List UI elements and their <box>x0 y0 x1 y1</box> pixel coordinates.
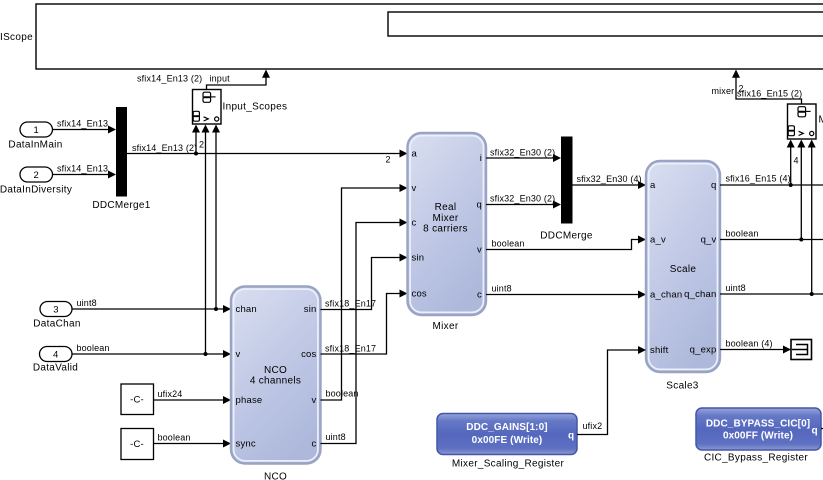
wire Mixer v to Scale a_v <box>486 240 639 250</box>
wire CIC q stub <box>821 428 823 430</box>
wire input wire to scope <box>207 78 267 90</box>
svg-text:DDCMerge1: DDCMerge1 <box>92 200 150 211</box>
inport 1 DataInMain <box>20 122 53 137</box>
svg-text:input: input <box>210 74 231 84</box>
wire DDCMerge1 to Mixer a <box>127 153 400 155</box>
svg-text:ufix24: ufix24 <box>158 389 183 399</box>
svg-text:NCO: NCO <box>264 365 287 376</box>
wire NCO cos to Mixer cos <box>321 294 401 355</box>
constant C1 <box>121 384 154 415</box>
svg-text:sync: sync <box>236 439 256 450</box>
svg-text:v: v <box>312 395 317 406</box>
svg-text:-C-: -C- <box>130 439 144 450</box>
svg-text:DDC_GAINS[1:0]: DDC_GAINS[1:0] <box>466 422 547 433</box>
svg-text:sfix32_En30 (2): sfix32_En30 (2) <box>490 194 555 204</box>
constant C2 <box>121 429 154 460</box>
svg-text:boolean: boolean <box>326 389 359 399</box>
svg-text:q: q <box>711 180 716 191</box>
mux DDCMerge1 <box>116 107 127 197</box>
svg-text:DataChan: DataChan <box>33 319 80 330</box>
svg-text:M: M <box>819 115 823 126</box>
svg-text:4: 4 <box>53 350 58 361</box>
terminator block <box>791 340 812 360</box>
svg-text:sin: sin <box>304 304 317 315</box>
wire port3 to NCO chan <box>72 308 224 310</box>
junction data node <box>194 152 198 156</box>
svg-text:0x00FF (Write): 0x00FF (Write) <box>723 431 793 442</box>
register CIC_Bypass_Register <box>696 408 821 450</box>
svg-text:IScope: IScope <box>0 32 33 43</box>
svg-text:i: i <box>480 153 482 164</box>
scope window frame <box>36 4 823 69</box>
svg-text:a_v: a_v <box>650 235 666 246</box>
svg-text:sfix16_En15 (2): sfix16_En15 (2) <box>737 89 802 99</box>
wire q_v riser to Mixer_Scopes <box>800 147 802 240</box>
svg-text:NCO: NCO <box>264 472 287 480</box>
svg-text:sfix16_En15 (4): sfix16_En15 (4) <box>726 174 791 184</box>
svg-text:q_exp: q_exp <box>690 345 717 356</box>
svg-text:CIC_Bypass_Register: CIC_Bypass_Register <box>704 453 808 464</box>
svg-text:boolean: boolean <box>158 433 191 443</box>
junction q_v node <box>799 238 803 242</box>
wire Mixer q to DDCMerge <box>486 204 554 206</box>
block Scale3 <box>646 161 720 372</box>
svg-text:boolean (4): boolean (4) <box>726 339 773 349</box>
svg-text:v: v <box>477 245 482 256</box>
junction chan node <box>214 307 218 311</box>
svg-text:uint8: uint8 <box>326 432 346 442</box>
svg-text:sfix32_En30 (4): sfix32_En30 (4) <box>577 174 642 184</box>
wire Mixer c to Scale a_chan <box>486 294 639 296</box>
svg-text:mixer: mixer <box>712 86 735 96</box>
svg-text:Scale: Scale <box>670 264 697 275</box>
svg-text:sfix14_En13 (2): sfix14_En13 (2) <box>132 143 197 153</box>
svg-text:a: a <box>650 180 656 191</box>
svg-text:q: q <box>568 431 574 442</box>
wire register to Scale shift <box>577 350 639 435</box>
svg-text:c: c <box>477 290 482 301</box>
svg-text:DataInMain: DataInMain <box>8 140 62 151</box>
wire q_chan riser to Mixer_Scopes <box>811 147 813 294</box>
svg-text:DDC_BYPASS_CIC[0]: DDC_BYPASS_CIC[0] <box>706 419 810 430</box>
wire Scale q_v to edge <box>720 239 823 241</box>
junction valid node <box>204 352 208 356</box>
wire Scale q to edge <box>720 184 823 186</box>
svg-text:chan: chan <box>236 304 257 315</box>
svg-text:uint8: uint8 <box>726 283 746 293</box>
wire mixer wire to scope <box>736 78 802 105</box>
wire chan riser to Input_Scopes <box>215 132 217 309</box>
subsystem Input_Scopes <box>193 90 288 125</box>
mux DDCMerge <box>561 137 573 224</box>
subsystem Mixer_Scopes <box>788 104 823 139</box>
svg-text:3: 3 <box>53 305 58 316</box>
svg-text:Scale3: Scale3 <box>666 381 699 392</box>
svg-text:Real: Real <box>435 202 457 213</box>
wire port2 to DDCMerge1 <box>53 174 109 176</box>
svg-text:2: 2 <box>199 140 204 150</box>
svg-text:uint8: uint8 <box>492 284 512 294</box>
svg-text:c: c <box>412 218 417 229</box>
block Mixer <box>408 133 487 315</box>
svg-text:boolean: boolean <box>492 239 525 249</box>
svg-text:q: q <box>812 426 818 437</box>
wire C2 to NCO sync <box>154 443 224 445</box>
register Mixer_Scaling_Register <box>437 414 577 455</box>
wire port1 to DDCMerge1 <box>53 129 109 131</box>
svg-text:Input_Scopes: Input_Scopes <box>223 102 288 113</box>
svg-text:DDCMerge: DDCMerge <box>540 231 593 242</box>
wire NCO v to Mixer v <box>321 188 401 400</box>
junction q_chan node <box>810 292 814 296</box>
svg-text:a_chan: a_chan <box>650 290 682 301</box>
svg-text:sin: sin <box>412 253 425 264</box>
svg-text:boolean: boolean <box>77 343 110 353</box>
wire port4 to NCO v <box>72 353 224 355</box>
svg-text:8 carriers: 8 carriers <box>423 224 468 235</box>
svg-text:cos: cos <box>301 349 316 360</box>
wire Mixer i to DDCMerge <box>486 157 554 159</box>
wire valid riser to Input_Scopes <box>205 132 207 354</box>
svg-text:4 channels: 4 channels <box>250 376 301 387</box>
svg-text:sfix14_En13 (2): sfix14_En13 (2) <box>137 74 202 84</box>
wire Scale q_chan to edge <box>720 293 823 295</box>
svg-text:Mixer: Mixer <box>433 213 459 224</box>
svg-text:Mixer_Scaling_Register: Mixer_Scaling_Register <box>452 459 565 470</box>
svg-text:DataValid: DataValid <box>33 363 78 374</box>
svg-text:sfix18_En17: sfix18_En17 <box>325 344 376 354</box>
svg-text:cos: cos <box>412 289 427 300</box>
svg-text:sfix32_En30 (2): sfix32_En30 (2) <box>490 148 555 158</box>
svg-text:-C-: -C- <box>130 395 144 406</box>
svg-text:c: c <box>312 439 317 450</box>
svg-text:4: 4 <box>794 156 799 166</box>
svg-text:phase: phase <box>236 395 263 406</box>
svg-text:q_chan: q_chan <box>684 289 716 300</box>
inport 2 DataInDiversity <box>20 167 53 182</box>
svg-text:0x00FE (Write): 0x00FE (Write) <box>472 435 543 446</box>
wire NCO c to Mixer c <box>321 223 401 444</box>
svg-text:2: 2 <box>386 155 391 165</box>
wire q riser to Mixer_Scopes <box>790 147 792 185</box>
wire data riser to Input_Scopes <box>195 132 197 154</box>
inport 3 DataChan <box>40 302 72 317</box>
scope window inner rect <box>388 12 823 36</box>
svg-text:q_v: q_v <box>701 235 717 246</box>
svg-text:ufix2: ufix2 <box>583 421 603 431</box>
svg-text:Mixer: Mixer <box>433 321 459 332</box>
inport 4 DataValid <box>40 347 73 362</box>
wire Scale q_exp to terminator <box>720 349 784 351</box>
svg-text:a: a <box>412 149 418 160</box>
svg-text:v: v <box>236 349 241 360</box>
wire DDCMerge to Scale a <box>573 184 639 186</box>
svg-text:2: 2 <box>33 170 38 181</box>
svg-text:sfix18_En17: sfix18_En17 <box>325 299 376 309</box>
svg-text:2: 2 <box>739 84 744 94</box>
block NCO <box>231 287 321 464</box>
svg-text:q: q <box>477 200 482 211</box>
junction q node <box>789 183 793 187</box>
svg-text:sfix14_En13: sfix14_En13 <box>57 119 108 129</box>
svg-text:shift: shift <box>650 345 669 356</box>
svg-text:uint8: uint8 <box>77 298 97 308</box>
svg-text:DataInDiversity: DataInDiversity <box>0 185 72 196</box>
svg-text:1: 1 <box>33 125 38 136</box>
wire C1 to NCO phase <box>154 399 224 401</box>
wire NCO sin to Mixer sin <box>321 258 401 310</box>
svg-text:boolean: boolean <box>726 229 759 239</box>
svg-text:v: v <box>412 183 417 194</box>
svg-text:sfix14_En13: sfix14_En13 <box>57 164 108 174</box>
